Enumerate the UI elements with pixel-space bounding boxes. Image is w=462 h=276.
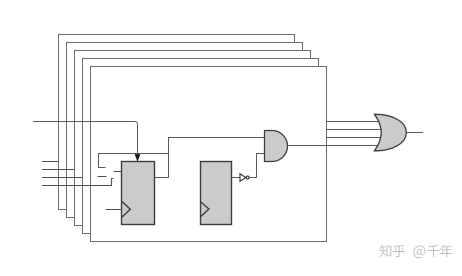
AND gate U1 [265, 131, 288, 162]
wire input net IN1 [42, 161, 59, 163]
instance sheet 4 [67, 43, 303, 218]
inverter U3 bubble [246, 176, 249, 179]
wire FF2 Q to inverter [232, 177, 241, 179]
watermark glyph 年 [440, 245, 452, 258]
instance sheet 3 [75, 51, 311, 226]
wire FF1 Q output to AND gate top input [155, 138, 265, 178]
wire sheet output net O4 to OR [327, 137, 382, 139]
flip-flop FF2 [201, 162, 232, 225]
wire input net IN3 [42, 177, 83, 179]
wire inverter output to AND gate bottom input [249, 154, 265, 178]
wire AND output to OR gate [288, 145, 381, 147]
wire feedback net B [99, 154, 169, 168]
wire input net IN4 with step into front sheet [42, 179, 114, 186]
wire OR output [406, 132, 423, 134]
wire stub dash 3 into FF1 [114, 171, 122, 173]
arrowhead into FF1 [135, 154, 140, 161]
instance sheet 2 [83, 59, 319, 234]
wire input net IN2 [42, 169, 75, 171]
flip-flop FF1 [122, 162, 155, 225]
wire stub dash 2 [98, 176, 107, 178]
watermark glyph 乎 [393, 245, 405, 257]
instance sheet 5 (rearmost) [59, 35, 295, 210]
clock pin chevron FF2 [201, 202, 209, 217]
watermark glyph 千 [428, 245, 440, 257]
OR gate U2 [374, 114, 406, 151]
wire clock stub to FF1 [106, 209, 122, 211]
clock pin chevron FF1 [122, 201, 131, 218]
inverter U3 triangle [240, 174, 246, 182]
watermark glyph 知 [380, 245, 392, 257]
wire data input D with arrow into FF1 [33, 122, 138, 156]
instance sheet 1 (front) [91, 67, 327, 242]
watermark glyph @ [413, 245, 425, 258]
wire sheet output net O3 to OR [327, 129, 382, 131]
wire sheet output net O2 to OR [327, 121, 382, 123]
